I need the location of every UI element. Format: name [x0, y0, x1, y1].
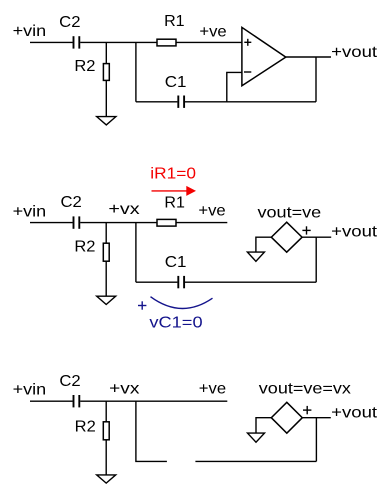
wire junction down to R2 (top): [105, 42, 107, 63]
svg-text:+ve: +ve: [199, 23, 226, 40]
svg-text:+vout: +vout: [331, 404, 378, 421]
annotation blue plus mark (vC1 polarity): [138, 301, 146, 309]
capacitor C2 (middle): [74, 216, 80, 228]
annotation red current arrow: [152, 186, 197, 196]
svg-text:+vout: +vout: [331, 224, 378, 241]
svg-text:+ve: +ve: [199, 380, 226, 397]
wire diamond to +vout (bottom): [302, 417, 331, 419]
wire from C2 to R1 (top): [80, 41, 157, 43]
svg-text:R1: R1: [164, 13, 185, 30]
wire from +vin to C2 (middle): [30, 222, 73, 224]
svg-text:vout=ve: vout=ve: [258, 204, 322, 221]
dependent source E1 diamond (middle): [271, 222, 302, 252]
wire feedback up to op-amp - input (top): [227, 72, 242, 101]
wire junction down to R2 (bottom): [105, 401, 107, 422]
wire diamond left to ground (middle): [256, 237, 271, 252]
wire from R1 to op-amp + input (top): [176, 41, 242, 43]
svg-text:+vout: +vout: [331, 44, 378, 61]
op-amp + input mark: [244, 39, 251, 46]
wire R2 to ground (bottom): [105, 440, 107, 475]
wire output down to C1 wire (middle): [315, 237, 317, 282]
wire R2 to ground (middle): [105, 261, 107, 296]
wire C1 to output node (middle): [185, 281, 316, 283]
resistor R1 (top): [157, 39, 176, 46]
wire to C1 left plate (top): [136, 101, 178, 103]
ground (bottom, under R2): [97, 475, 116, 483]
wire from C2 to +ve open end (bottom): [80, 400, 227, 402]
svg-text:R1: R1: [164, 194, 185, 211]
svg-text:R2: R2: [74, 239, 95, 256]
annotation blue arc under C1: [151, 297, 213, 309]
wire C1 to feedback node (top): [185, 101, 316, 103]
resistor R1 body (middle): [157, 219, 176, 226]
wire diamond to +vout (middle): [302, 236, 331, 238]
dependent source E1 diamond (bottom): [271, 402, 302, 433]
wire junction down to C1 branch (middle): [135, 223, 137, 283]
wire diamond left to ground (bottom): [256, 418, 271, 433]
wire right segment of broken C1 branch (bottom): [195, 460, 316, 462]
wire R1 to +ve (middle): [176, 222, 227, 224]
svg-text:iR1=0: iR1=0: [150, 166, 196, 183]
wire from +vin to C2 (top): [30, 41, 73, 43]
svg-text:vC1=0: vC1=0: [149, 314, 202, 331]
svg-text:+vin: +vin: [13, 203, 47, 220]
svg-text:+vx: +vx: [109, 381, 139, 398]
capacitor C1 (top): [178, 96, 184, 108]
capacitor C1 (middle): [178, 276, 184, 288]
op-amp - input mark: [244, 71, 251, 73]
svg-text:vout=ve=vx: vout=ve=vx: [259, 381, 351, 398]
wire R2 to ground (top): [105, 80, 107, 116]
resistor R2 (top): [103, 64, 109, 81]
svg-text:C2: C2: [59, 373, 80, 390]
svg-text:+vin: +vin: [13, 23, 47, 40]
wire output down to broken branch (bottom): [315, 418, 317, 462]
svg-text:+vx: +vx: [108, 201, 139, 218]
svg-text:C2: C2: [59, 14, 80, 31]
plus polarity mark at source output (bottom): [303, 406, 311, 414]
ground (middle, at source): [247, 252, 264, 261]
wire junction down to C1 branch (top): [135, 42, 137, 101]
resistor R2 (bottom): [103, 422, 109, 440]
svg-text:R2: R2: [74, 58, 95, 75]
wire from C2 through R1 to +ve open end (middle): [80, 222, 157, 224]
wire feedback from output down (top): [315, 57, 317, 102]
capacitor C2 (bottom): [74, 395, 80, 407]
wire op-amp output to +vout (top): [286, 56, 331, 58]
wire junction down to R2 (middle): [105, 223, 107, 244]
capacitor C2 (top): [74, 36, 80, 48]
svg-text:R2: R2: [75, 418, 96, 435]
plus polarity mark at source output (middle): [302, 226, 310, 234]
svg-text:+ve: +ve: [198, 202, 225, 219]
svg-text:C2: C2: [61, 194, 82, 211]
svg-text:C1: C1: [165, 254, 187, 271]
wire from +vin to C2 (bottom): [30, 400, 73, 402]
resistor R2 (middle): [103, 243, 109, 261]
ground (bottom, at source): [248, 433, 265, 442]
svg-text:C1: C1: [165, 74, 187, 91]
op-amp U1 (top): [242, 27, 286, 85]
wire to C1 left plate (middle): [136, 281, 178, 283]
svg-text:+vin: +vin: [13, 382, 47, 399]
ground (top, under R2): [97, 117, 116, 125]
wire junction down with open stub (bottom, C1 removed): [136, 401, 167, 461]
ground (middle, under R2): [97, 296, 116, 304]
